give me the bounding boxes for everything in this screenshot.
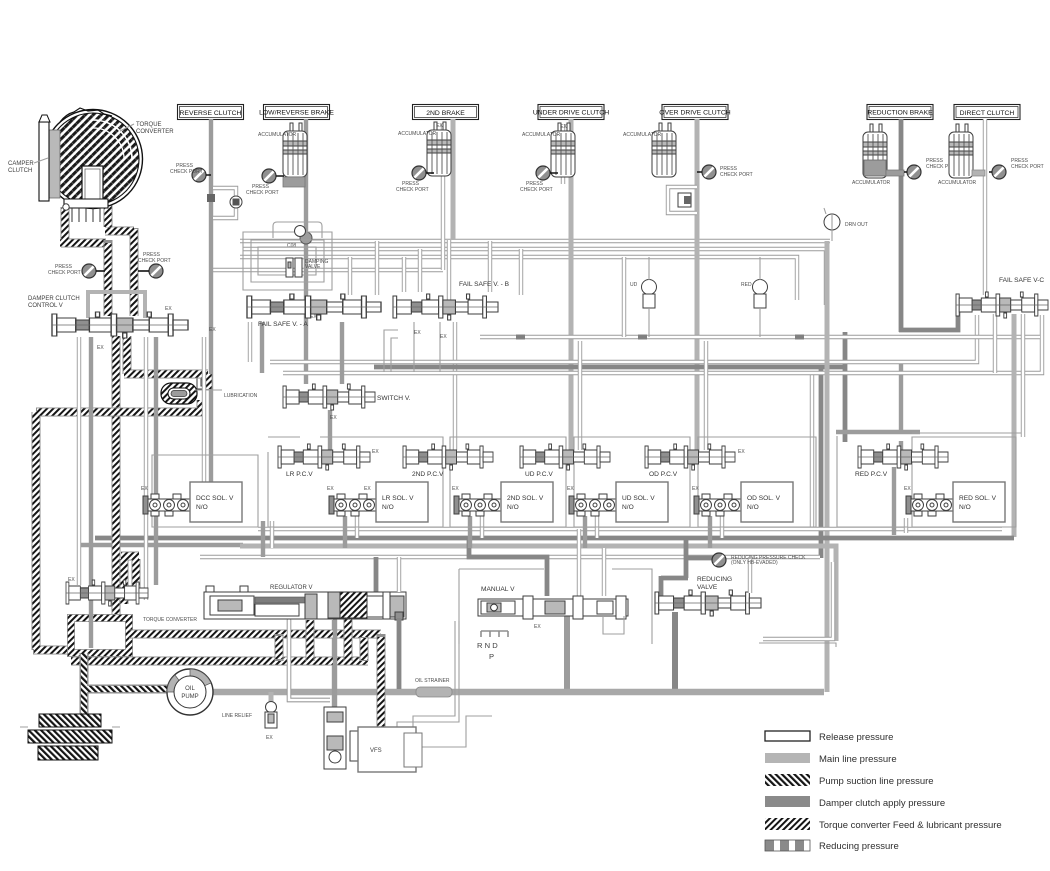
svg-text:REDUCING: REDUCING xyxy=(697,576,732,583)
label 2nd brake xyxy=(413,105,479,120)
node: check ball OD xyxy=(741,257,768,337)
svg-text:OD SOL. V: OD SOL. V xyxy=(747,495,781,502)
node: low/rev junction ball xyxy=(287,232,312,249)
svg-text:EX: EX xyxy=(330,415,337,421)
svg-text:DIRECT CLUTCH: DIRECT CLUTCH xyxy=(960,110,1015,117)
wire: dcc line pair xyxy=(202,337,206,482)
svg-text:Torque converter Feed & lubric: Torque converter Feed & lubricant pressu… xyxy=(819,820,1002,831)
component: press check port reverse xyxy=(170,163,211,182)
wire: dark line y432 to red pcv xyxy=(810,373,814,529)
wire: regulator to vfs line xyxy=(332,620,336,710)
svg-text:Reducing pressure: Reducing pressure xyxy=(819,841,899,852)
svg-text:CHECK PORT: CHECK PORT xyxy=(1011,164,1044,170)
svg-text:VFS: VFS xyxy=(370,748,382,754)
wire: bottom band y557 xyxy=(200,555,820,559)
wire: hatched drop to vfs xyxy=(377,634,386,728)
label reverse clutch xyxy=(178,105,244,120)
wire: pump suction from pan xyxy=(84,653,168,714)
svg-text:EX: EX xyxy=(414,330,421,336)
wire: 2nd brake release pair down xyxy=(441,124,445,270)
svg-text:N/O: N/O xyxy=(196,504,208,511)
wire: fail safe A top nest boxes xyxy=(243,232,332,290)
wire: red enclosure riser pair xyxy=(993,314,997,373)
label fail safe V-B xyxy=(414,281,510,340)
svg-text:N/O: N/O xyxy=(507,504,519,511)
wire: hatched below lubrication xyxy=(33,400,205,650)
svg-text:EX: EX xyxy=(68,577,75,583)
svg-text:EX: EX xyxy=(165,306,172,312)
wire: manual valve feed 2 xyxy=(602,548,606,596)
component: press check port direct xyxy=(989,158,1044,179)
svg-text:OD P.C.V: OD P.C.V xyxy=(649,471,678,478)
wire: fail safe B bottom stubs xyxy=(414,322,440,372)
label torque converter xyxy=(120,122,174,135)
wire: band line 4 to 2nd brake drop xyxy=(213,268,443,272)
valve: fail safe V-C xyxy=(956,292,1048,318)
component: torque converter body xyxy=(39,108,143,222)
svg-text:EX: EX xyxy=(364,486,371,492)
svg-text:ACCUMULATOR: ACCUMULATOR xyxy=(852,180,891,186)
label low/reverse brake xyxy=(259,105,334,120)
component: oil strainer on main line xyxy=(415,678,452,697)
wire: regulator feed dark from band xyxy=(374,557,379,600)
svg-text:EX: EX xyxy=(266,735,273,741)
wire: hatched below DCCV long vertical xyxy=(112,336,121,620)
svg-text:FAIL SAFE V-C: FAIL SAFE V-C xyxy=(999,277,1044,284)
svg-text:EX: EX xyxy=(436,123,443,129)
svg-text:EX: EX xyxy=(440,334,447,340)
svg-text:Main line pressure: Main line pressure xyxy=(819,754,897,765)
wire: direct clutch release line down xyxy=(983,119,987,295)
valve: UD PCV xyxy=(520,444,610,470)
solenoid: OD SOL xyxy=(692,482,793,522)
component: press check port over drive xyxy=(697,165,753,179)
svg-text:UD P.C.V: UD P.C.V xyxy=(525,471,553,478)
svg-text:REDUCTION BRAKE: REDUCTION BRAKE xyxy=(867,110,933,117)
label direct clutch xyxy=(954,105,1020,120)
svg-text:VALVE: VALVE xyxy=(305,264,321,270)
valve: damper clutch control valve xyxy=(52,312,188,338)
wire: switch valve to lr pcv xyxy=(328,410,332,450)
svg-text:TORQUE CONVERTER: TORQUE CONVERTER xyxy=(143,617,197,623)
wire: over drive check loop xyxy=(668,187,697,213)
label fail safe V-A xyxy=(209,314,317,333)
wire: main line horizontal xyxy=(210,689,824,696)
solenoid: LR SOL xyxy=(327,482,428,522)
svg-text:LINE RELIEF: LINE RELIEF xyxy=(222,713,252,719)
label RED PCV xyxy=(855,471,888,478)
label torque converter (regulator area) xyxy=(143,617,197,623)
svg-text:N/O: N/O xyxy=(382,504,394,511)
svg-text:EX: EX xyxy=(692,486,699,492)
wire: hatched feed left vertical to DCCV xyxy=(104,240,113,316)
wire: hatched U to EX valve xyxy=(121,556,139,604)
valve: reducing valve xyxy=(655,590,761,616)
wire: manual valve to main line xyxy=(564,613,570,692)
wire: DCCV downstream gray lines xyxy=(77,337,81,585)
wire: reverse clutch main line down xyxy=(209,119,213,484)
svg-text:CAMPER: CAMPER xyxy=(8,161,34,167)
svg-text:EX: EX xyxy=(209,327,216,333)
wire: bottom band y538 dark xyxy=(79,538,1014,545)
wire: reducing valve feed dark xyxy=(661,538,688,596)
svg-text:EX: EX xyxy=(310,314,317,320)
svg-text:EX: EX xyxy=(372,449,379,455)
wire: top distribution band line 1 xyxy=(240,239,830,243)
svg-text:ACCUMULATOR: ACCUMULATOR xyxy=(623,132,662,138)
component: accumulator 2nd brake xyxy=(398,122,451,176)
svg-text:CHECK PORT: CHECK PORT xyxy=(396,187,429,193)
label damper clutch xyxy=(8,158,48,174)
drain: fail safe A drain cap xyxy=(273,222,322,238)
wire: regulator release down xyxy=(289,620,330,700)
svg-text:VALVE: VALVE xyxy=(697,584,718,591)
valve: fail safe V-B xyxy=(393,294,498,320)
svg-text:N/O: N/O xyxy=(622,504,634,511)
wire: reverse clutch check loop xyxy=(207,188,242,218)
svg-text:N/O: N/O xyxy=(747,504,759,511)
svg-text:RED: RED xyxy=(741,282,752,288)
label OD PCV xyxy=(649,449,745,478)
svg-text:LUBRICATION: LUBRICATION xyxy=(224,393,258,399)
wire: reduction brake apply line down xyxy=(899,119,904,332)
svg-text:2ND SOL. V: 2ND SOL. V xyxy=(507,495,544,502)
wire: bottom band y548 xyxy=(240,546,836,641)
label UD PCV xyxy=(525,471,553,478)
valve: LR PCV xyxy=(278,444,370,470)
svg-text:OIL: OIL xyxy=(185,686,195,692)
component: accumulator low/reverse xyxy=(258,123,307,187)
svg-text:ACCUMULATOR: ACCUMULATOR xyxy=(398,131,437,137)
wire: reducing check stub xyxy=(686,556,714,561)
valve: OD PCV xyxy=(645,444,735,470)
wire: fail safe B risers xyxy=(404,241,521,295)
wire: fail safe C down lines xyxy=(1012,314,1017,537)
wire: release pair beside UD xyxy=(578,341,582,450)
component: oil pan strainer slabs xyxy=(20,714,120,760)
label fail safe V-C xyxy=(999,277,1044,284)
wire: strainer corner thin lines xyxy=(397,621,459,760)
svg-text:MANUAL V: MANUAL V xyxy=(481,586,515,593)
label EX DCCV xyxy=(97,306,172,351)
component: reducing pressure check xyxy=(712,553,806,567)
wire: hatched to lubrication elbow xyxy=(124,336,208,390)
component: accumulator reduction xyxy=(852,124,904,186)
component: press check port right of converter pipes xyxy=(138,252,171,278)
svg-text:C08: C08 xyxy=(287,243,296,249)
component: manual valve detent box xyxy=(603,616,624,634)
label manual v xyxy=(481,586,541,630)
svg-text:CHECK PORT: CHECK PORT xyxy=(170,169,203,175)
solenoid: DCC SOL xyxy=(141,482,242,522)
svg-text:CONTROL V: CONTROL V xyxy=(28,303,63,309)
label switch v xyxy=(330,395,411,421)
wire: hatched regulator drops xyxy=(279,618,364,661)
svg-text:REVERSE CLUTCH: REVERSE CLUTCH xyxy=(180,110,242,117)
svg-text:ACCUMULATOR: ACCUMULATOR xyxy=(258,132,297,138)
legend: damper clutch apply pressure xyxy=(765,796,945,809)
component: press check port low/reverse xyxy=(246,169,284,196)
valve: RED PCV xyxy=(858,444,948,470)
svg-text:LR P.C.V: LR P.C.V xyxy=(286,471,313,478)
svg-text:UNDER DRIVE CLUTCH: UNDER DRIVE CLUTCH xyxy=(533,110,609,117)
wire: DCCV gray line 3 xyxy=(154,337,158,585)
wire: DCCV gray frame xyxy=(88,292,145,318)
svg-text:RED SOL. V: RED SOL. V xyxy=(959,495,997,502)
legend: release pressure xyxy=(765,731,893,743)
wire: reducing valve to main line xyxy=(672,612,678,692)
svg-text:EX: EX xyxy=(904,486,911,492)
svg-text:ACCUMULATOR: ACCUMULATOR xyxy=(522,132,561,138)
svg-text:CHECK PORT: CHECK PORT xyxy=(138,258,171,264)
wire: under drive release pair xyxy=(561,124,565,184)
valve: 2ND PCV xyxy=(403,444,493,470)
component: accumulator under drive xyxy=(522,123,575,177)
svg-text:LR SOL. V: LR SOL. V xyxy=(382,495,414,502)
svg-text:CHECK PORT: CHECK PORT xyxy=(246,190,279,196)
label reduction brake xyxy=(867,105,933,120)
svg-text:LOW/REVERSE BRAKE: LOW/REVERSE BRAKE xyxy=(259,110,334,117)
wire: band line y337 right xyxy=(480,335,1040,339)
wire: dark return line left of reduction xyxy=(836,332,920,457)
wire: vfs output line xyxy=(415,716,492,747)
wire: release drop near UD ball xyxy=(622,257,626,337)
svg-text:OIL STRAINER: OIL STRAINER xyxy=(415,678,450,684)
wire: reducing out lines right xyxy=(759,562,836,647)
svg-text:EX: EX xyxy=(141,486,148,492)
svg-text:P: P xyxy=(489,652,494,661)
component: press check port 2nd xyxy=(396,166,434,193)
svg-text:CHECK PORT: CHECK PORT xyxy=(720,172,753,178)
solenoid: RED SOL xyxy=(904,482,1005,522)
component: suction chamber box xyxy=(71,618,129,653)
wire: od sol drops xyxy=(710,516,722,548)
solenoid: 2ND SOL xyxy=(452,482,553,522)
svg-text:Pump suction line pressure: Pump suction line pressure xyxy=(819,776,934,787)
svg-text:EX: EX xyxy=(327,486,334,492)
wire: manual valve feed dark xyxy=(469,538,547,596)
wire: fail safe A risers xyxy=(350,241,377,295)
svg-text:CHECK PORT: CHECK PORT xyxy=(520,187,553,193)
wire: main pressure riser right xyxy=(825,241,830,692)
svg-text:EX: EX xyxy=(560,124,567,130)
component: press check port reduction xyxy=(904,158,959,179)
label over drive clutch xyxy=(659,105,730,120)
svg-text:CHECK PORT: CHECK PORT xyxy=(48,270,81,276)
wire: reducing right stub up xyxy=(748,557,752,593)
svg-text:OVER DRIVE CLUTCH: OVER DRIVE CLUTCH xyxy=(659,110,730,117)
wire: hatched feed right outlet xyxy=(105,204,134,316)
svg-text:2ND P.C.V: 2ND P.C.V xyxy=(412,471,444,478)
wire: thin line y433 right xyxy=(912,432,1021,434)
wire: under drive clutch line down xyxy=(569,119,574,452)
svg-text:FAIL SAFE V. - B: FAIL SAFE V. - B xyxy=(459,281,510,288)
svg-text:FAIL SAFE V. - A: FAIL SAFE V. - A xyxy=(258,321,308,328)
wire: DCCV gray line 2 xyxy=(89,337,93,648)
wire: hatched lube line y661 xyxy=(71,657,368,666)
wire: release pair beside OD xyxy=(704,341,708,450)
valve: fail safe V-A xyxy=(247,294,381,320)
svg-text:REGULATOR V: REGULATOR V xyxy=(270,585,312,591)
valve: VFS solenoid xyxy=(324,707,422,772)
wire: red sol drops xyxy=(894,467,906,535)
valve: regulator valve xyxy=(204,586,406,620)
wire: top distribution band line 3 xyxy=(240,257,797,300)
wire: mid band line y362 xyxy=(270,315,977,362)
svg-text:ACCUMULATOR: ACCUMULATOR xyxy=(938,180,977,186)
svg-text:SWITCH V.: SWITCH V. xyxy=(377,395,411,402)
wire: dark band line y367 xyxy=(374,367,845,558)
label LR PCV xyxy=(286,449,379,478)
label damper clutch control v xyxy=(28,296,80,309)
svg-text:UD SOL. V: UD SOL. V xyxy=(622,495,655,502)
svg-text:EX: EX xyxy=(534,624,541,630)
wire: fail safe A to switch valve xyxy=(340,322,344,384)
label regulator v xyxy=(270,585,312,591)
component: press check port left of converter pipes xyxy=(48,264,105,278)
wire: fail safe A to switch area xyxy=(250,322,262,373)
svg-text:EX: EX xyxy=(452,486,459,492)
component: press check port under drive xyxy=(520,166,558,193)
svg-text:DRN OUT: DRN OUT xyxy=(845,222,868,228)
legend: pump suction line pressure xyxy=(765,774,934,787)
svg-text:EX: EX xyxy=(738,449,745,455)
label reducing valve xyxy=(697,576,732,591)
wire: over drive clutch line down xyxy=(695,119,700,452)
wire: mid band line y373 xyxy=(283,315,1042,373)
label under drive clutch xyxy=(533,105,609,120)
svg-text:Release pressure: Release pressure xyxy=(819,732,893,743)
svg-text:TORQUE: TORQUE xyxy=(136,122,162,128)
svg-text:(ONLY HB-EVADED): (ONLY HB-EVADED) xyxy=(731,560,778,566)
wire: dcc sol drops xyxy=(263,521,272,557)
wire: 2nd sol drops xyxy=(470,516,482,548)
svg-text:RED P.C.V: RED P.C.V xyxy=(855,471,888,478)
svg-text:EX: EX xyxy=(567,486,574,492)
wire: fail safe B left loop xyxy=(384,330,398,372)
svg-text:Damper clutch apply pressure: Damper clutch apply pressure xyxy=(819,798,945,809)
svg-text:PUMP: PUMP xyxy=(181,694,198,700)
component: shifter RNDP xyxy=(477,631,508,661)
wire: 2nd brake main line down to fail safe B xyxy=(449,119,453,300)
wire: lr sol drops xyxy=(345,516,357,548)
valve: small EX valve left xyxy=(66,577,148,606)
wire: hatched feed left outlet xyxy=(60,207,106,243)
wire: DCCV light line to regulator xyxy=(144,337,148,600)
enclosure boxes thin xyxy=(152,436,1016,527)
valve: manual valve xyxy=(478,596,628,619)
enclosure around manual valve xyxy=(459,569,652,644)
svg-text:CONVERTER: CONVERTER xyxy=(136,129,174,135)
valve: switch valve xyxy=(283,384,375,410)
wire: low/reverse brake main line down xyxy=(304,119,308,384)
legend: main line pressure xyxy=(765,753,897,765)
legend: torque converter feed xyxy=(765,818,1002,831)
svg-text:CLUTCH: CLUTCH xyxy=(8,168,32,174)
node: ticks on line y337 xyxy=(516,335,804,340)
component: line relief valve xyxy=(222,692,277,741)
wire: manual valve feeds light xyxy=(577,529,581,596)
component: damping valve xyxy=(286,258,328,277)
wire: fail safe C release down-left xyxy=(1021,314,1025,437)
drain: DRN OUT symbol xyxy=(824,208,868,241)
component: accumulator over drive xyxy=(623,123,676,177)
wire: top distribution band line 2 xyxy=(243,249,826,305)
wire: bottom band y529 xyxy=(258,527,1002,531)
svg-text:DCC SOL. V: DCC SOL. V xyxy=(196,495,234,502)
svg-text:N/O: N/O xyxy=(959,504,971,511)
wire: gray drop x400 xyxy=(397,557,401,689)
node: check ball UD xyxy=(630,257,657,337)
wire: gray over hatch (regulator drops redraw) xyxy=(289,619,335,710)
component: orifice on reverse line xyxy=(197,376,212,389)
wire: hatched lube line y634 xyxy=(129,630,381,639)
svg-text:EX: EX xyxy=(97,345,104,351)
wire: 2nd pcv feed down xyxy=(453,322,457,450)
svg-text:UD: UD xyxy=(630,282,638,288)
svg-text:DAMPER CLUTCH: DAMPER CLUTCH xyxy=(28,296,80,302)
wire: ud sol drops xyxy=(585,516,597,548)
component: accumulator direct xyxy=(938,124,985,186)
component: lubrication restrictor xyxy=(161,383,258,404)
wire: reduction brake to fail safe C xyxy=(899,300,958,330)
label 2ND PCV xyxy=(412,471,444,478)
svg-text:R N D: R N D xyxy=(477,641,498,650)
component: oil pump xyxy=(167,669,213,715)
svg-text:2ND BRAKE: 2ND BRAKE xyxy=(426,110,465,117)
solenoid: UD SOL xyxy=(567,482,668,522)
legend: reducing pressure xyxy=(765,840,899,852)
